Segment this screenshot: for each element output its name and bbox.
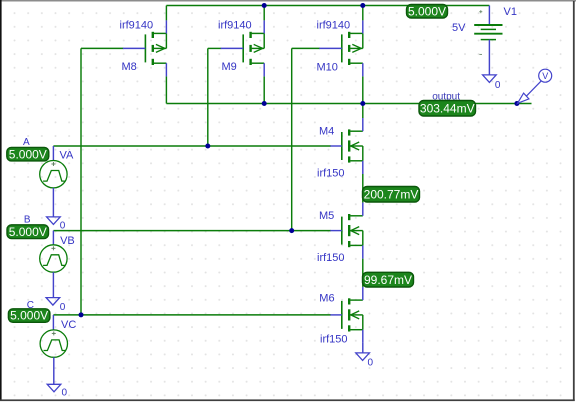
svg-text:0: 0 bbox=[368, 358, 374, 369]
svg-text:5.000V: 5.000V bbox=[408, 4, 446, 18]
wire M10 gate to row B bbox=[291, 48, 293, 230]
wire M5 source to M6 drain bbox=[362, 259, 364, 287]
svg-text:303.44mV: 303.44mV bbox=[420, 101, 475, 115]
svg-text:5.000V: 5.000V bbox=[10, 309, 48, 323]
svg-text:VA: VA bbox=[60, 150, 75, 162]
svg-text:irf9140: irf9140 bbox=[317, 20, 351, 32]
pulse voltage source VB bbox=[40, 245, 67, 272]
wire VA top stub bbox=[52, 146, 54, 161]
ground below VB bbox=[46, 298, 60, 306]
svg-text:irf9140: irf9140 bbox=[218, 20, 252, 32]
svg-text:M10: M10 bbox=[317, 62, 338, 74]
battery V1 bbox=[474, 6, 502, 75]
probe readout 303.44mV (output) bbox=[419, 101, 476, 117]
svg-text:M4: M4 bbox=[319, 126, 334, 138]
node: row A / M9 gate bbox=[205, 144, 210, 149]
svg-text:A: A bbox=[23, 137, 30, 148]
svg-text:5V: 5V bbox=[452, 22, 466, 34]
node: rail / M9 source bbox=[262, 3, 267, 8]
node: output probe connection bbox=[514, 101, 519, 106]
svg-text:irf150: irf150 bbox=[317, 252, 345, 264]
wire row B (input B to M5 gate) bbox=[53, 230, 330, 232]
svg-text:M8: M8 bbox=[122, 61, 137, 73]
wire VA bottom stub bbox=[52, 188, 54, 217]
wire M8 drain to bus bbox=[165, 76, 167, 103]
wire M4 source to M5 drain bbox=[362, 174, 364, 203]
battery minus mark bbox=[479, 53, 482, 55]
transistor M5 (NMOS irf150) bbox=[330, 203, 363, 259]
wire M9 gate to row A bbox=[207, 48, 209, 146]
transistor M9 (PMOS irf9140) bbox=[208, 20, 264, 76]
probe readout 5.000V (V1) bbox=[407, 4, 448, 18]
svg-text:V1: V1 bbox=[504, 6, 517, 18]
svg-text:5.000V: 5.000V bbox=[9, 225, 47, 239]
svg-text:M9: M9 bbox=[222, 61, 237, 73]
wire row A (input A to M4 gate) bbox=[53, 145, 330, 147]
svg-text:200.77mV: 200.77mV bbox=[364, 187, 419, 201]
ground below VA bbox=[47, 217, 61, 225]
svg-text:M6: M6 bbox=[319, 293, 334, 305]
ground below M6 bbox=[356, 353, 370, 361]
wire VC top stub bbox=[52, 315, 54, 330]
svg-text:VC: VC bbox=[61, 319, 76, 331]
wire M10 source to rail bbox=[362, 6, 364, 21]
pulse voltage source VA bbox=[40, 161, 67, 188]
transistor M10 (PMOS irf9140) bbox=[292, 20, 363, 76]
wire M6 source to ground bbox=[362, 343, 364, 353]
wire VC bottom stub bbox=[53, 357, 55, 384]
node: rail / M10 source bbox=[360, 3, 365, 8]
transistor M6 (NMOS irf150) bbox=[330, 287, 363, 343]
svg-text:99.67mV: 99.67mV bbox=[364, 273, 412, 287]
wire VDD top rail bbox=[166, 5, 489, 7]
svg-text:0: 0 bbox=[62, 388, 68, 399]
probe readout 5.000V (C) bbox=[8, 309, 50, 323]
svg-text:irf9140: irf9140 bbox=[120, 20, 154, 32]
node: row C / M8 gate bbox=[79, 312, 84, 317]
svg-text:0: 0 bbox=[60, 302, 66, 313]
svg-text:VB: VB bbox=[60, 235, 75, 247]
pulse voltage source VC bbox=[40, 330, 67, 357]
wire M8 source to rail bbox=[165, 6, 167, 21]
voltmeter probe V bbox=[518, 69, 552, 103]
transistor M4 (NMOS irf150) bbox=[330, 118, 363, 174]
svg-text:5.000V: 5.000V bbox=[9, 147, 47, 161]
wire VB top stub bbox=[52, 231, 54, 245]
transistor M8 (PMOS irf9140) bbox=[81, 20, 166, 76]
wire VB bottom stub bbox=[52, 272, 54, 297]
svg-text:0: 0 bbox=[495, 80, 501, 91]
probe readout 5.000V (A) bbox=[7, 147, 49, 161]
wire output bus bbox=[166, 103, 531, 105]
wire M9 drain to bus bbox=[263, 76, 265, 103]
battery plus mark bbox=[479, 11, 482, 13]
svg-text:irf150: irf150 bbox=[320, 334, 348, 346]
probe readout 200.77mV bbox=[363, 187, 420, 203]
svg-text:0: 0 bbox=[60, 220, 66, 231]
ground below VC bbox=[47, 384, 61, 392]
wire M9 source to rail bbox=[263, 6, 265, 21]
svg-text:V: V bbox=[542, 71, 548, 81]
probe readout 99.67mV bbox=[363, 272, 414, 287]
ground below V1 bbox=[483, 75, 497, 83]
node: row B / M10 gate bbox=[289, 228, 294, 233]
node: bus / M9 drain bbox=[262, 101, 267, 106]
probe readout 5.000V (B) bbox=[7, 225, 49, 239]
svg-text:M5: M5 bbox=[319, 210, 334, 222]
wire M10 drain / M4 drain to bus bbox=[362, 76, 364, 103]
wire row C (input C to M6 gate) bbox=[53, 314, 330, 316]
svg-text:irf150: irf150 bbox=[317, 168, 345, 180]
node: bus / M10-M4 drains bbox=[360, 101, 365, 106]
wire M8 gate to row C bbox=[80, 48, 82, 315]
